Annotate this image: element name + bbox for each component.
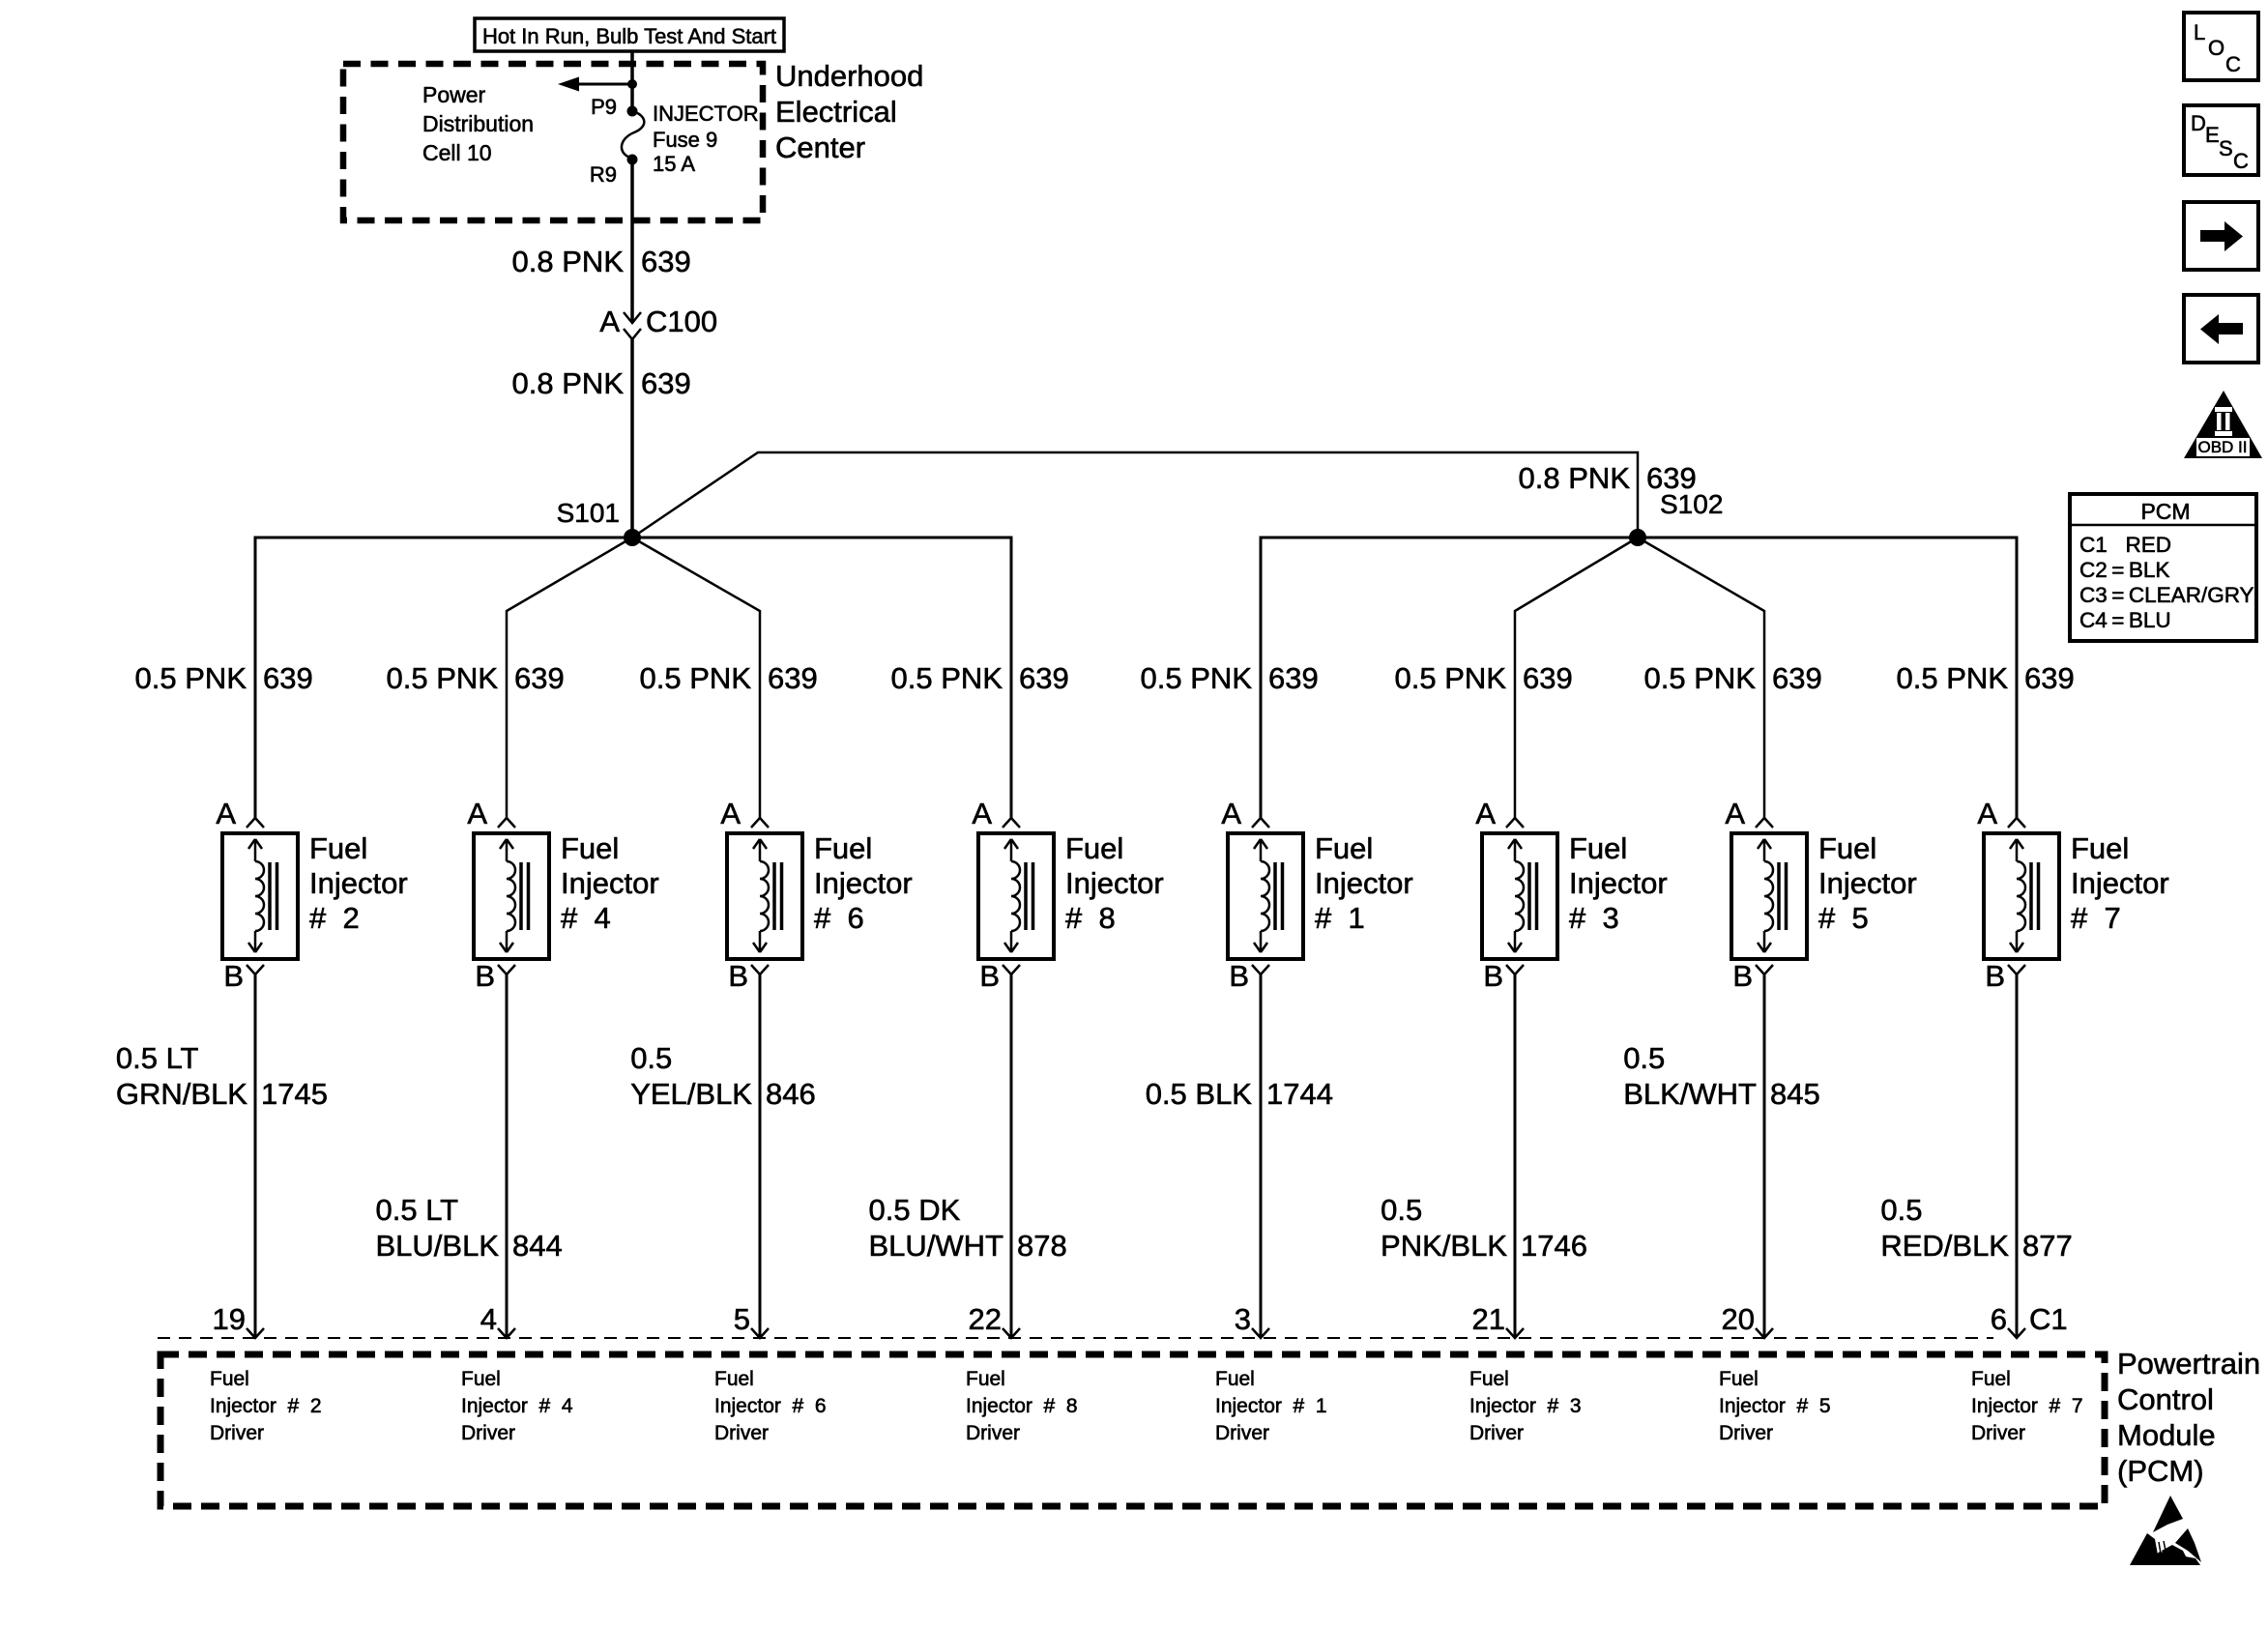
svg-text:Fuel: Fuel	[1719, 1368, 1759, 1390]
svg-text:0.8 PNK: 0.8 PNK	[512, 245, 625, 278]
svg-text:Distribution: Distribution	[422, 111, 534, 136]
terminal A of fuel injector 1	[1252, 818, 1269, 828]
terminal B of fuel injector 8	[1003, 965, 1020, 974]
svg-text:639: 639	[1523, 661, 1573, 695]
PCM driver label Fuel Injector # 3 Driver	[1469, 1368, 1582, 1444]
wire color label 0.5 BLK 1744	[1146, 1077, 1333, 1111]
svg-text:21: 21	[1472, 1302, 1505, 1336]
terminal A of fuel injector 2	[247, 818, 264, 828]
svg-text:19: 19	[213, 1302, 246, 1336]
svg-text:S101: S101	[557, 498, 620, 528]
svg-text:Injector # 5: Injector # 5	[1719, 1395, 1831, 1417]
svg-text:Injector: Injector	[1818, 866, 1917, 900]
svg-text:Fuel: Fuel	[1469, 1368, 1509, 1390]
PCM driver label Fuel Injector # 2 Driver	[210, 1368, 322, 1444]
PCM connector color legend box	[2070, 494, 2256, 641]
wire label 0.5 PNK 639 (injector 1 feed)	[1141, 661, 1319, 695]
wire label 0.8 PNK 639 (at S102)	[1519, 461, 1697, 495]
svg-text:B: B	[1985, 959, 2005, 993]
svg-text:Control: Control	[2117, 1382, 2214, 1416]
svg-text:20: 20	[1722, 1302, 1755, 1336]
svg-text:Injector: Injector	[561, 866, 659, 900]
terminal A of fuel injector 6	[751, 818, 769, 828]
svg-text:C1 RED: C1 RED	[2079, 533, 2171, 557]
terminal B of fuel injector 4	[498, 965, 515, 974]
PCM driver label Fuel Injector # 6 Driver	[714, 1368, 827, 1444]
svg-text:# 5: # 5	[1818, 901, 1869, 935]
wire label 0.5 PNK 639 (injector 5 feed)	[1644, 661, 1822, 695]
component label Fuel Injector # 3	[1569, 831, 1668, 935]
component label Fuel Injector # 4	[561, 831, 659, 935]
svg-text:0.5 PNK: 0.5 PNK	[135, 661, 247, 695]
fuel injector # 6 (coil component)	[727, 833, 802, 959]
PCM pin 19 chevron	[247, 1328, 264, 1338]
svg-text:Fuel: Fuel	[561, 831, 619, 865]
svg-text:# 4: # 4	[561, 901, 611, 935]
terminal B of fuel injector 7	[2008, 965, 2025, 974]
fuel injector # 3 (coil component)	[1482, 833, 1557, 959]
wire S10x horizontal branch to injector column 1	[1261, 538, 1638, 818]
component label Fuel Injector # 5	[1818, 831, 1917, 935]
wire S10x diagonal branch to injector column 4	[507, 538, 632, 818]
svg-text:Injector: Injector	[1065, 866, 1164, 900]
svg-text:0.5 BLK: 0.5 BLK	[1146, 1077, 1253, 1111]
terminal A of fuel injector 5	[1756, 818, 1773, 828]
svg-text:0.5: 0.5	[630, 1041, 672, 1075]
OBD II symbol	[2184, 391, 2262, 458]
svg-text:E: E	[2205, 123, 2220, 147]
svg-text:Fuel: Fuel	[1215, 1368, 1255, 1390]
svg-text:C4 = BLU: C4 = BLU	[2079, 608, 2171, 632]
PCM pin 6 chevron	[2008, 1328, 2025, 1338]
wire S10x horizontal branch to injector column 7	[1638, 538, 2017, 818]
svg-text:639: 639	[641, 245, 691, 278]
svg-text:Injector # 3: Injector # 3	[1469, 1395, 1582, 1417]
svg-text:Fuel: Fuel	[1569, 831, 1627, 865]
svg-text:C1: C1	[2029, 1302, 2068, 1336]
svg-text:Injector # 6: Injector # 6	[714, 1395, 827, 1417]
svg-text:Driver: Driver	[966, 1422, 1020, 1444]
wire S101 to S102 (link)	[632, 452, 1638, 538]
wire label 0.5 PNK 639 (injector 3 feed)	[1395, 661, 1573, 695]
svg-text:Injector: Injector	[2071, 866, 2169, 900]
PCM driver label Fuel Injector # 1 Driver	[1215, 1368, 1327, 1444]
svg-text:639: 639	[641, 366, 691, 400]
terminal B of fuel injector 3	[1506, 965, 1524, 974]
ESD sensitivity symbol	[2130, 1496, 2201, 1565]
wire label 0.5 PNK 639 (injector 2 feed)	[135, 661, 313, 695]
svg-text:Fuel: Fuel	[210, 1368, 249, 1390]
svg-text:4: 4	[480, 1302, 497, 1336]
svg-text:878: 878	[1017, 1229, 1067, 1263]
PCM pin 22 chevron	[1003, 1328, 1020, 1338]
wire S10x diagonal branch to injector column 5	[1638, 538, 1764, 818]
svg-text:L: L	[2194, 20, 2205, 44]
svg-text:Center: Center	[775, 131, 865, 164]
fuel injector # 2 (coil component)	[222, 833, 298, 959]
svg-text:Injector: Injector	[814, 866, 913, 900]
wire color label 0.5 DK BLU/WHT 878	[869, 1193, 1067, 1263]
svg-text:Electrical: Electrical	[775, 95, 897, 129]
svg-text:0.5 PNK: 0.5 PNK	[1644, 661, 1757, 695]
svg-text:6: 6	[1991, 1302, 2007, 1336]
terminal A of fuel injector 3	[1506, 818, 1524, 828]
svg-text:Driver: Driver	[210, 1422, 264, 1444]
svg-text:Cell 10: Cell 10	[422, 140, 492, 165]
forward arrow icon box	[2184, 202, 2258, 270]
svg-text:0.5 PNK: 0.5 PNK	[891, 661, 1003, 695]
fuel injector # 4 (coil component)	[474, 833, 549, 959]
svg-text:0.5 PNK: 0.5 PNK	[1897, 661, 2009, 695]
PCM driver label Fuel Injector # 8 Driver	[966, 1368, 1078, 1444]
svg-text:BLU/WHT: BLU/WHT	[869, 1229, 1004, 1263]
svg-text:Fuel: Fuel	[814, 831, 872, 865]
svg-text:1745: 1745	[261, 1077, 328, 1111]
svg-text:PNK/BLK: PNK/BLK	[1381, 1229, 1507, 1263]
svg-text:B: B	[223, 959, 244, 993]
svg-text:22: 22	[969, 1302, 1002, 1336]
wire color label 0.5 PNK/BLK 1746	[1381, 1193, 1587, 1263]
svg-text:O: O	[2208, 36, 2224, 60]
svg-text:Driver: Driver	[1469, 1422, 1524, 1444]
splice S102	[1629, 529, 1646, 546]
svg-text:C: C	[2233, 149, 2249, 173]
svg-text:# 2: # 2	[309, 901, 360, 935]
label Underhood Electrical Center	[775, 59, 923, 164]
wire color label 0.5 RED/BLK 877	[1880, 1193, 2072, 1263]
wire label 0.5 PNK 639 (injector 4 feed)	[387, 661, 565, 695]
label Powertrain Control Module (PCM)	[2117, 1347, 2260, 1488]
svg-text:R9: R9	[590, 162, 617, 187]
svg-text:1744: 1744	[1266, 1077, 1333, 1111]
wire label 0.5 PNK 639 (injector 7 feed)	[1897, 661, 2075, 695]
component label Fuel Injector # 7	[2071, 831, 2169, 935]
svg-text:P9: P9	[591, 95, 617, 119]
svg-text:Fuel: Fuel	[1971, 1368, 2011, 1390]
wire injector 4 terminal B to PCM pin 4	[506, 974, 509, 1338]
svg-text:RED/BLK: RED/BLK	[1880, 1229, 2009, 1263]
svg-text:Injector: Injector	[1315, 866, 1413, 900]
svg-text:# 6: # 6	[814, 901, 864, 935]
wire injector 6 terminal B to PCM pin 5	[759, 974, 762, 1338]
svg-text:A: A	[972, 797, 992, 830]
svg-text:0.5 PNK: 0.5 PNK	[1395, 661, 1507, 695]
terminal B of fuel injector 6	[751, 965, 769, 974]
Powertrain Control Module (PCM) dashed box	[160, 1354, 2105, 1506]
svg-text:B: B	[728, 959, 748, 993]
svg-text:Fuel: Fuel	[1065, 831, 1123, 865]
fuel injector # 5 (coil component)	[1731, 833, 1807, 959]
connector C100 terminal A	[624, 312, 641, 339]
svg-text:A: A	[1725, 797, 1745, 830]
PCM driver label Fuel Injector # 5 Driver	[1719, 1368, 1831, 1444]
svg-text:Fuel: Fuel	[461, 1368, 501, 1390]
svg-text:C3 = CLEAR/GRY: C3 = CLEAR/GRY	[2079, 583, 2254, 607]
svg-text:639: 639	[1019, 661, 1069, 695]
svg-text:Driver: Driver	[461, 1422, 515, 1444]
svg-text:0.5: 0.5	[1880, 1193, 1922, 1227]
svg-text:Fuel: Fuel	[966, 1368, 1005, 1390]
svg-text:Fuel: Fuel	[309, 831, 367, 865]
wire label 0.5 PNK 639 (injector 6 feed)	[640, 661, 818, 695]
svg-text:Hot In Run, Bulb Test And Star: Hot In Run, Bulb Test And Start	[482, 24, 776, 48]
terminal A of fuel injector 8	[1003, 818, 1020, 828]
PCM driver label Fuel Injector # 4 Driver	[461, 1368, 573, 1444]
svg-text:844: 844	[512, 1229, 563, 1263]
svg-text:1746: 1746	[1521, 1229, 1587, 1263]
svg-text:# 7: # 7	[2071, 901, 2121, 935]
wire color label 0.5 LT BLU/BLK 844	[375, 1193, 562, 1263]
wire injector 5 terminal B to PCM pin 20	[1763, 974, 1766, 1338]
svg-text:B: B	[1732, 959, 1753, 993]
svg-text:845: 845	[1770, 1077, 1820, 1111]
svg-text:B: B	[1229, 959, 1249, 993]
wire injector 3 terminal B to PCM pin 21	[1514, 974, 1517, 1338]
svg-text:BLK/WHT: BLK/WHT	[1623, 1077, 1757, 1111]
svg-text:Fuel: Fuel	[1818, 831, 1876, 865]
svg-text:639: 639	[768, 661, 818, 695]
PCM pin 5 chevron	[751, 1328, 769, 1338]
label Power Distribution Cell 10	[422, 82, 534, 165]
back arrow icon box	[2184, 295, 2258, 363]
terminal B of fuel injector 2	[247, 965, 264, 974]
svg-text:Power: Power	[422, 82, 486, 107]
svg-text:A: A	[216, 797, 236, 830]
svg-text:Injector # 7: Injector # 7	[1971, 1395, 2083, 1417]
svg-text:0.5: 0.5	[1623, 1041, 1665, 1075]
svg-text:639: 639	[2024, 661, 2075, 695]
LOC icon box	[2184, 13, 2258, 80]
component label Fuel Injector # 6	[814, 831, 913, 935]
wire color label 0.5 BLK/WHT 845	[1623, 1041, 1820, 1111]
fuse F9: INJECTOR Fuse 9 15 A	[622, 106, 644, 165]
svg-text:# 3: # 3	[1569, 901, 1619, 935]
wire S10x horizontal branch to injector column 2	[255, 538, 632, 818]
fuel injector # 8 (coil component)	[978, 833, 1054, 959]
svg-text:Driver: Driver	[1719, 1422, 1773, 1444]
svg-text:Injector: Injector	[309, 866, 408, 900]
svg-text:Fuel: Fuel	[2071, 831, 2129, 865]
component label Fuel Injector # 2	[309, 831, 408, 935]
svg-text:Driver: Driver	[1215, 1422, 1269, 1444]
svg-text:639: 639	[1646, 461, 1697, 495]
svg-text:B: B	[475, 959, 495, 993]
svg-text:0.5 PNK: 0.5 PNK	[1141, 661, 1253, 695]
svg-text:639: 639	[1772, 661, 1822, 695]
svg-text:0.5: 0.5	[1381, 1193, 1422, 1227]
wire label 0.8 PNK 639 (above C100)	[512, 245, 691, 278]
PCM pin 20 chevron	[1756, 1328, 1773, 1338]
svg-text:0.5 LT: 0.5 LT	[116, 1041, 199, 1075]
component label Fuel Injector # 1	[1315, 831, 1413, 935]
wire S10x diagonal branch to injector column 6	[632, 538, 760, 818]
svg-text:877: 877	[2022, 1229, 2073, 1263]
PCM driver label Fuel Injector # 7 Driver	[1971, 1368, 2083, 1444]
terminal A of fuel injector 4	[498, 818, 515, 828]
PCM connector C1 thin dashed boundary	[158, 1337, 1993, 1339]
svg-text:Fuel: Fuel	[714, 1368, 754, 1390]
svg-text:Fuel: Fuel	[1315, 831, 1373, 865]
terminal B of fuel injector 1	[1252, 965, 1269, 974]
svg-text:0.5 PNK: 0.5 PNK	[640, 661, 752, 695]
fuel injector # 7 (coil component)	[1984, 833, 2059, 959]
svg-text:Injector # 4: Injector # 4	[461, 1395, 573, 1417]
svg-text:Driver: Driver	[1971, 1422, 2025, 1444]
svg-text:0.8 PNK: 0.8 PNK	[1519, 461, 1631, 495]
svg-text:Injector # 1: Injector # 1	[1215, 1395, 1327, 1417]
svg-text:Fuse 9: Fuse 9	[653, 128, 717, 152]
svg-text:C2 = BLK: C2 = BLK	[2079, 558, 2169, 582]
svg-text:PCM: PCM	[2140, 499, 2190, 524]
svg-text:# 1: # 1	[1315, 901, 1365, 935]
svg-text:Driver: Driver	[714, 1422, 769, 1444]
svg-text:A: A	[720, 797, 741, 830]
wire injector 7 terminal B to PCM pin 6	[2016, 974, 2019, 1338]
wire injector 1 terminal B to PCM pin 3	[1260, 974, 1263, 1338]
PCM pin 3 chevron	[1252, 1328, 1269, 1338]
PCM pin 4 chevron	[498, 1328, 515, 1338]
component label Fuel Injector # 8	[1065, 831, 1164, 935]
fuse value label INJECTOR Fuse 9 15 A	[653, 102, 759, 176]
wire color label 0.5 LT GRN/BLK 1745	[116, 1041, 328, 1111]
svg-text:(PCM): (PCM)	[2117, 1454, 2204, 1488]
svg-text:0.5 PNK: 0.5 PNK	[387, 661, 499, 695]
junction dot at arrow branch	[627, 79, 637, 89]
terminal B of fuel injector 5	[1756, 965, 1773, 974]
svg-text:INJECTOR: INJECTOR	[653, 102, 759, 126]
svg-text:Injector # 8: Injector # 8	[966, 1395, 1078, 1417]
svg-text:OBD II: OBD II	[2197, 438, 2247, 456]
wire S10x diagonal branch to injector column 3	[1515, 538, 1638, 818]
svg-text:639: 639	[514, 661, 565, 695]
svg-text:Injector: Injector	[1569, 866, 1668, 900]
svg-text:D: D	[2191, 111, 2206, 135]
svg-text:C: C	[2225, 52, 2241, 76]
svg-text:0.5 DK: 0.5 DK	[869, 1193, 961, 1227]
power feed banner "Hot In Run, Bulb Test And Start"	[475, 18, 784, 51]
wire 0.8 PNK 639 from fuse to C100	[630, 160, 634, 323]
svg-text:3: 3	[1235, 1302, 1251, 1336]
svg-text:15 A: 15 A	[653, 152, 695, 176]
svg-text:5: 5	[734, 1302, 750, 1336]
wire color label 0.5 YEL/BLK 846	[630, 1041, 816, 1111]
svg-text:639: 639	[263, 661, 313, 695]
svg-text:C100: C100	[646, 305, 717, 338]
svg-text:A: A	[599, 305, 620, 338]
svg-text:A: A	[467, 797, 487, 830]
splice S101	[624, 529, 641, 546]
svg-text:Powertrain: Powertrain	[2117, 1347, 2260, 1381]
svg-text:GRN/BLK: GRN/BLK	[116, 1077, 247, 1111]
svg-text:BLU/BLK: BLU/BLK	[375, 1229, 499, 1263]
wire 0.8 PNK 639 from C100 to S101	[630, 339, 634, 538]
svg-text:B: B	[1483, 959, 1503, 993]
svg-text:A: A	[1977, 797, 1997, 830]
fuel injector # 1 (coil component)	[1228, 833, 1303, 959]
svg-text:S: S	[2219, 136, 2233, 160]
svg-text:A: A	[1475, 797, 1496, 830]
wire from banner to fuse P9	[630, 51, 634, 111]
PCM pin 21 chevron	[1506, 1328, 1524, 1338]
Underhood Electrical Center dashed box	[343, 64, 763, 220]
svg-text:Underhood: Underhood	[775, 59, 923, 93]
DESC icon box	[2184, 105, 2258, 175]
svg-text:A: A	[1221, 797, 1241, 830]
wire S10x horizontal branch to injector column 8	[632, 538, 1011, 818]
svg-text:# 8: # 8	[1065, 901, 1116, 935]
wire injector 2 terminal B to PCM pin 19	[254, 974, 257, 1338]
wire label 0.5 PNK 639 (injector 8 feed)	[891, 661, 1069, 695]
terminal A of fuel injector 7	[2008, 818, 2025, 828]
arrow to Power Distribution Cell 10	[558, 77, 632, 92]
wire injector 8 terminal B to PCM pin 22	[1010, 974, 1013, 1338]
svg-text:0.8 PNK: 0.8 PNK	[512, 366, 625, 400]
svg-text:846: 846	[766, 1077, 816, 1111]
svg-text:Injector # 2: Injector # 2	[210, 1395, 322, 1417]
svg-text:Module: Module	[2117, 1418, 2216, 1452]
wire label 0.8 PNK 639 (below C100)	[512, 366, 691, 400]
svg-text:639: 639	[1268, 661, 1319, 695]
svg-text:0.5 LT: 0.5 LT	[376, 1193, 459, 1227]
svg-text:B: B	[979, 959, 1000, 993]
svg-text:YEL/BLK: YEL/BLK	[630, 1077, 752, 1111]
